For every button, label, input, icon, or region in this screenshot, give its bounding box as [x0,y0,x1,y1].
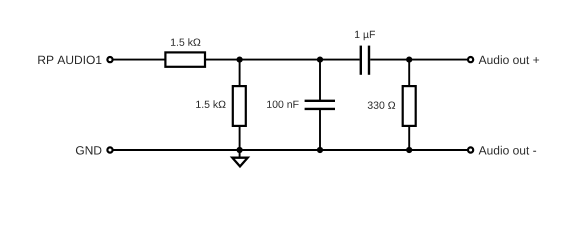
capacitor C1 value label 100 nF [267,101,299,108]
node Audio out - label [479,146,536,155]
wire node B down to C1 [319,60,321,101]
wire node A down to R2 [239,60,241,86]
capacitor C2 value label 1 µF [355,31,375,40]
terminal GND [107,147,112,152]
junction top node A (R2 tap) [237,57,243,63]
wire input to R1 [113,59,165,61]
wire R3 to bottom rail [408,126,410,150]
wire node C down to R3 [408,60,410,86]
node Audio out + label [479,55,539,64]
resistor R1 (series 1.5 kΩ) [165,52,205,66]
wire bottom rail GND to Audio out - [113,149,468,151]
wire C2 to output terminal (top rail) [370,59,467,61]
terminal Audio out + [468,57,473,62]
terminal Audio out - [468,147,473,152]
wire R2 to bottom rail [239,126,241,150]
junction bottom node (R3) [406,147,412,153]
junction bottom node (C1) [317,147,323,153]
ground [232,150,247,166]
resistor R1 value label 1.5 kΩ [171,38,200,46]
resistor R3 (shunt 330 Ω) [403,86,416,126]
node GND label [76,146,102,155]
junction top node C (R3 tap) [406,57,412,63]
terminal RP AUDIO1 [107,57,112,62]
capacitor C2 (series 1 µF) [361,46,369,75]
node RP AUDIO1 label [38,56,101,65]
junction top node B (C1 tap) [317,57,323,63]
wire R1 to C2 (top rail) [206,59,360,61]
resistor R2 value label 1.5 kΩ [196,100,225,108]
resistor R2 (shunt 1.5 kΩ) [233,86,246,126]
resistor R3 value label 330 Ω [368,102,395,109]
capacitor C1 (shunt 100 nF) [305,101,335,109]
wire C1 to bottom rail [319,109,321,150]
junction bottom node (R2 / ground) [237,147,243,153]
